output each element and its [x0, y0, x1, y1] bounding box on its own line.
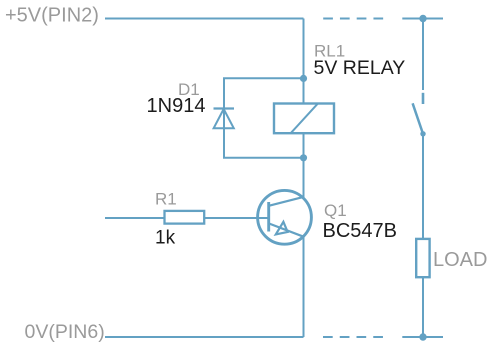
label D1	[178, 80, 200, 99]
relay contact switch lever	[413, 103, 423, 134]
svg-text:Q1: Q1	[324, 201, 347, 220]
svg-text:5V RELAY: 5V RELAY	[314, 57, 406, 79]
label 1N914	[147, 95, 206, 117]
wire right rail load to bottom	[422, 277, 424, 337]
svg-text:R1: R1	[155, 190, 177, 209]
node junction diode bottom	[300, 154, 307, 161]
wire 0V rail horizontal	[105, 336, 304, 338]
wire relay coil top lead	[303, 78, 305, 103]
label RL1	[314, 42, 345, 61]
wire diode branch top	[224, 78, 304, 158]
label R1	[155, 190, 177, 209]
transistor Q1 emitter arrow	[276, 222, 288, 235]
node +5V supply label	[5, 5, 99, 27]
node 0V supply label	[25, 321, 105, 343]
resistor LOAD	[416, 239, 429, 277]
node junction bottom right	[419, 333, 426, 340]
wire relay coil bottom lead	[303, 133, 305, 158]
transistor Q1 emitter stroke	[269, 223, 304, 236]
label BC547B	[323, 220, 398, 242]
diode D1 cathode bar	[214, 107, 235, 109]
wire right rail to switch	[422, 19, 424, 91]
label 1k	[155, 228, 176, 249]
transistor Q1 base bar	[267, 202, 270, 232]
svg-text:BC547B: BC547B	[323, 220, 398, 242]
svg-text:0V(PIN6): 0V(PIN6)	[25, 321, 105, 343]
node switch pivot	[420, 131, 425, 136]
wire right rail switch to load	[422, 134, 424, 240]
svg-text:LOAD: LOAD	[433, 249, 487, 271]
transistor Q1 body circle	[258, 190, 312, 244]
svg-text:1N914: 1N914	[147, 95, 206, 117]
wire dashed continuation top	[323, 18, 384, 20]
wire base to transistor	[204, 217, 269, 219]
resistor R1	[165, 211, 205, 224]
relay coil RL1 box	[274, 104, 334, 134]
wire collector lead	[303, 158, 305, 198]
wire dashed continuation bottom	[323, 336, 384, 338]
relay contact switch top stub	[422, 93, 425, 104]
node junction diode top	[300, 75, 307, 82]
label Q1	[324, 201, 347, 220]
wire +5V rail horizontal	[105, 18, 304, 20]
svg-text:1k: 1k	[155, 228, 176, 249]
transistor Q1 collector stroke	[269, 197, 304, 206]
diode D1 triangle	[214, 109, 234, 128]
label LOAD	[433, 249, 487, 271]
wire bottom right segment	[402, 336, 443, 338]
wire top right segment	[402, 18, 443, 20]
wire left vertical rail top (to diode junction)	[303, 19, 305, 79]
wire left rail bottom (transistor to 0V)	[303, 237, 305, 337]
svg-text:+5V(PIN2): +5V(PIN2)	[5, 5, 99, 27]
label 5V RELAY	[314, 57, 406, 79]
wire base input	[105, 217, 165, 219]
node junction top right	[419, 15, 426, 22]
